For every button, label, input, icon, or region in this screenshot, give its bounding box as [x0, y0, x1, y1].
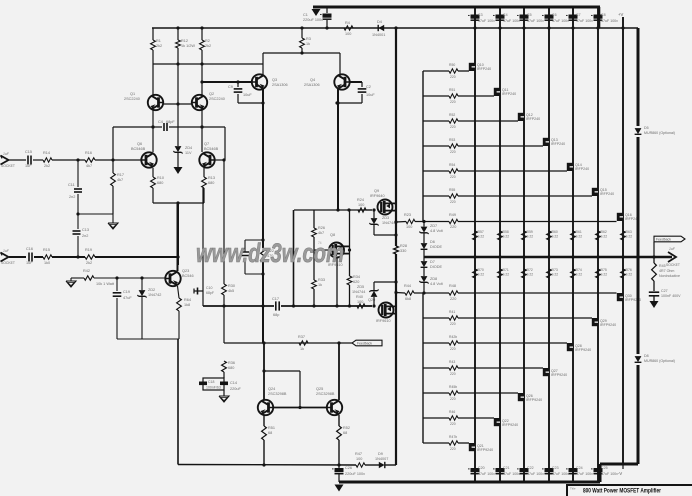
- svg-text:R19: R19: [85, 248, 92, 252]
- svg-text:1uF: 1uF: [26, 261, 33, 265]
- svg-text:R24: R24: [357, 198, 364, 202]
- wire main driver column x396 upper: [394, 28, 397, 246]
- svg-text:D6: D6: [430, 240, 435, 244]
- svg-text:C5: C5: [527, 13, 532, 17]
- wire Q23 collector x178: [177, 203, 179, 271]
- resistor R16: [85, 151, 95, 168]
- svg-text:47uF 100v: 47uF 100v: [503, 472, 520, 476]
- mosfet Q22 IRFP9240: [494, 418, 518, 427]
- mosfet Q30 IRFP9240: [617, 293, 641, 302]
- svg-text:R2: R2: [205, 39, 210, 43]
- capacitor C20 47uF 100v: [468, 466, 495, 476]
- resistor R14: [33, 151, 52, 168]
- svg-text:220: 220: [450, 75, 456, 79]
- svg-text:R48: R48: [449, 284, 456, 288]
- ground below C14: [219, 396, 229, 402]
- svg-text:DIODE: DIODE: [430, 245, 442, 249]
- wire P gate bus x423: [422, 293, 424, 443]
- svg-text:BC546: BC546: [182, 274, 194, 278]
- svg-text:Q1: Q1: [130, 92, 135, 96]
- resistor R28 330 in main column: [394, 244, 407, 254]
- capacitor C15 10uF: [9, 150, 32, 168]
- svg-text:47uF 100v: 47uF 100v: [552, 472, 569, 476]
- resistor R4 100: [344, 21, 353, 36]
- wire N gate row 1 with resistor R50 220: [423, 63, 469, 79]
- svg-text:C26: C26: [345, 466, 352, 470]
- svg-text:R23: R23: [404, 213, 411, 217]
- svg-text:R42: R42: [83, 269, 90, 273]
- svg-text:1uF: 1uF: [3, 249, 10, 253]
- svg-text:SOCKET: SOCKET: [1, 164, 15, 168]
- svg-text:1uF: 1uF: [25, 164, 32, 168]
- svg-text:R63: R63: [626, 230, 632, 234]
- wire row2 node: [52, 255, 85, 258]
- wire N gate row 5 with resistor R54 220: [423, 163, 567, 179]
- wire +V top supply rail: [313, 6, 600, 9]
- svg-text:220: 220: [450, 225, 456, 229]
- svg-text:220: 220: [450, 100, 456, 104]
- wire Q1 emitter to Q6: [151, 110, 154, 152]
- svg-text:C20: C20: [478, 466, 485, 470]
- svg-text:2k2: 2k2: [86, 261, 92, 265]
- resistor R26 4k7: [312, 210, 325, 237]
- power flag V+ arrow at rail left end: [312, 7, 321, 16]
- svg-text:R61: R61: [576, 230, 582, 234]
- svg-text:Q9: Q9: [374, 189, 379, 193]
- wire tail current column x178: [176, 203, 179, 265]
- resistor R76 0.22 source: [621, 268, 633, 278]
- capacitor C10 68pF hanging: [194, 286, 214, 295]
- svg-text:10uF: 10uF: [366, 93, 375, 97]
- svg-text:Q24: Q24: [268, 387, 275, 391]
- wire rail jog x599: [598, 7, 601, 28]
- svg-text:4R7 Ohm: 4R7 Ohm: [659, 269, 674, 273]
- capacitor C6 47uF 100v: [542, 13, 569, 23]
- svg-text:220: 220: [450, 150, 456, 154]
- diode D9 1N4007: [375, 452, 388, 468]
- svg-text:-V: -V: [618, 471, 622, 476]
- svg-text:SOCKET: SOCKET: [1, 261, 15, 265]
- svg-text:330: 330: [400, 249, 406, 253]
- resistor R30 4k5 feedback column upper: [222, 158, 235, 343]
- resistor R73 0.22 source: [547, 268, 559, 278]
- diode D7 clamp: [421, 257, 443, 276]
- resistor R51 68: [262, 415, 275, 465]
- svg-text:R4: R4: [345, 21, 350, 25]
- svg-text:R16: R16: [85, 151, 92, 155]
- svg-text:R57: R57: [478, 230, 484, 234]
- watermark www.dz3w.com: [196, 238, 344, 268]
- svg-text:1N4744: 1N4744: [382, 221, 395, 225]
- connector J2 input socket: [1, 249, 15, 265]
- svg-text:R62: R62: [601, 230, 607, 234]
- svg-text:R36: R36: [228, 361, 235, 365]
- svg-text:220: 220: [450, 175, 456, 179]
- svg-text:R64: R64: [184, 298, 191, 302]
- transistor Q24 2SC3298B: [258, 387, 287, 415]
- wire C9 to emitter column: [238, 101, 265, 104]
- svg-text:R70: R70: [478, 268, 484, 272]
- svg-text:220: 220: [450, 347, 456, 351]
- diode D4 1N4001: [372, 20, 385, 37]
- wire P gate row 6 with resistor 220: [423, 410, 494, 426]
- svg-text:2SA1306: 2SA1306: [304, 83, 320, 87]
- resistor R13 680: [202, 168, 215, 203]
- wire P gate row 3 with resistor 220: [423, 335, 567, 351]
- svg-text:220: 220: [450, 322, 456, 326]
- svg-text:R53: R53: [449, 138, 455, 142]
- svg-text:R46: R46: [449, 410, 455, 414]
- resistor R33 1k: [312, 237, 325, 306]
- svg-text:C8: C8: [601, 13, 606, 17]
- svg-text:4k7: 4k7: [318, 231, 324, 235]
- wire Q4 emitter column x338: [336, 88, 339, 210]
- transistor Q20 IRF9610 lower driver: [368, 298, 396, 323]
- svg-text:C17: C17: [272, 297, 279, 301]
- wire -V rail y482: [339, 481, 600, 484]
- capacitor C24 47uF 100v: [566, 466, 593, 476]
- svg-text:ZD5: ZD5: [357, 285, 364, 289]
- svg-text:Q23: Q23: [182, 269, 189, 273]
- svg-text:ZD2: ZD2: [148, 288, 155, 292]
- wire output column 2 x500: [499, 7, 501, 482]
- ground below R17: [108, 214, 118, 229]
- wire Q25 collector x339: [338, 343, 340, 400]
- svg-text:6k8: 6k8: [405, 297, 411, 301]
- resistor R47 100: [355, 452, 365, 467]
- svg-text:R12: R12: [181, 39, 188, 43]
- wire Q1-Q2 base link: [163, 48, 192, 106]
- wire y339 shunt join: [117, 338, 179, 340]
- svg-text:0.22: 0.22: [601, 235, 608, 239]
- svg-text:47uF 100v: 47uF 100v: [527, 472, 544, 476]
- svg-text:1k0: 1k0: [44, 261, 50, 265]
- svg-text:R71: R71: [503, 268, 509, 272]
- svg-text:10k 1 Watt: 10k 1 Watt: [96, 282, 115, 286]
- svg-text:R30: R30: [228, 284, 235, 288]
- svg-text:680: 680: [157, 181, 163, 185]
- net flag Feedback at VAS: [352, 340, 382, 346]
- resistor R62 0.22 source: [596, 230, 608, 240]
- svg-text:D9: D9: [378, 452, 383, 456]
- svg-text:R47: R47: [355, 452, 362, 456]
- svg-text:220: 220: [450, 297, 456, 301]
- wire +V bus y28 horizontal: [152, 26, 638, 29]
- wire Q2 collector: [201, 64, 203, 95]
- svg-text:1k8: 1k8: [184, 303, 190, 307]
- svg-text:2n2: 2n2: [82, 234, 88, 238]
- svg-text:220uF 100v: 220uF 100v: [303, 18, 323, 22]
- wire input node: [52, 158, 85, 161]
- wire output column 3 x524: [523, 7, 525, 482]
- wire N gate row 2 with resistor R51 220: [423, 88, 494, 104]
- svg-text:R74: R74: [576, 268, 582, 272]
- wire N gate row 3 with resistor R52 220: [423, 113, 518, 129]
- svg-text:0.22: 0.22: [601, 273, 608, 277]
- svg-text:C21: C21: [503, 466, 510, 470]
- mosfet Q29 IRFP9240: [592, 318, 616, 327]
- svg-text:C11: C11: [68, 183, 75, 187]
- svg-text:R45: R45: [659, 264, 666, 268]
- wire row2 to tail column: [95, 256, 178, 258]
- mosfet Q21 IRFP9240: [469, 443, 493, 452]
- svg-text:R73: R73: [552, 268, 558, 272]
- svg-text:0.22: 0.22: [626, 273, 633, 277]
- resistor R1 2k2: [151, 28, 163, 64]
- svg-text:R34: R34: [353, 275, 360, 279]
- capacitor C4 47uF 100v: [493, 13, 520, 23]
- svg-text:4.8 Volt: 4.8 Volt: [430, 229, 444, 233]
- wire LTP tail y203: [153, 201, 204, 204]
- wire Q1 collector: [152, 64, 154, 95]
- svg-text:68pF: 68pF: [206, 291, 214, 295]
- wire P gate row 2 with resistor 220: [423, 310, 592, 326]
- mosfet Q11 IRFP240: [494, 88, 516, 96]
- svg-text:Q25: Q25: [316, 387, 323, 391]
- svg-text:0.22: 0.22: [576, 235, 583, 239]
- resistor R52 68: [337, 415, 350, 465]
- svg-text:1k: 1k: [318, 283, 322, 287]
- svg-text:C25: C25: [601, 466, 608, 470]
- title block 800 Watt Power MOSFET Amplifier: [567, 485, 692, 496]
- mosfet Q15 IRFP240: [592, 188, 614, 196]
- svg-text:R51: R51: [268, 426, 275, 430]
- svg-text:ZD7: ZD7: [430, 224, 437, 228]
- svg-text:www.dz3w.com: www.dz3w.com: [196, 238, 344, 268]
- svg-text:220: 220: [450, 447, 456, 451]
- capacitor C17 68p series: [272, 297, 279, 317]
- svg-text:IRFP240: IRFP240: [600, 192, 614, 196]
- transistor Q8 IRF9610 bias servo: [314, 233, 350, 267]
- svg-text:R49: R49: [449, 213, 456, 217]
- resistor R72 0.22 source: [522, 268, 534, 278]
- mosfet Q10 IRFP240: [469, 63, 491, 71]
- capacitor C22 47uF 100v: [517, 466, 544, 476]
- wire Q3 base bus y82: [200, 80, 252, 83]
- transistor Q6 BC546B: [131, 142, 157, 168]
- svg-text:10uF: 10uF: [243, 93, 252, 97]
- svg-text:C15: C15: [25, 150, 32, 154]
- svg-text:R55: R55: [449, 188, 455, 192]
- svg-text:220uF: 220uF: [230, 387, 241, 391]
- svg-text:2k2: 2k2: [156, 44, 162, 48]
- svg-text:68p: 68p: [273, 313, 279, 317]
- wire N gate row 4 with resistor R53 220: [423, 138, 543, 154]
- mosfet Q13 IRFP240: [543, 138, 565, 146]
- capacitor C23 47uF 100v: [542, 466, 569, 476]
- capacitor C3 47uF 100v: [468, 13, 495, 23]
- svg-text:47uF 100v: 47uF 100v: [552, 19, 569, 23]
- wire mirror cross link: [264, 371, 302, 409]
- wire Q24 collector x264: [262, 343, 265, 400]
- capacitor C8 47uF 100v: [591, 13, 618, 23]
- svg-text:IRFP9240: IRFP9240: [526, 398, 542, 402]
- wire output rail y257: [424, 255, 672, 258]
- wire catch diode column x638: [637, 28, 640, 464]
- zener ZD7 4.8 Volt clamp: [419, 222, 443, 244]
- resistor R3 1k: [300, 28, 311, 53]
- svg-text:1k 1/2W: 1k 1/2W: [181, 44, 195, 48]
- svg-text:100nF/63: 100nF/63: [206, 386, 221, 390]
- zener ZD8 4.8 Volt clamp: [419, 276, 443, 293]
- wire N gate row 6 with resistor R55 220: [423, 188, 592, 204]
- svg-text:SOCKET: SOCKET: [666, 263, 680, 267]
- resistor R10 680: [151, 168, 164, 203]
- svg-text:1uF: 1uF: [3, 152, 10, 156]
- svg-text:R41: R41: [449, 310, 455, 314]
- svg-text:Q2: Q2: [209, 92, 214, 96]
- svg-text:R54: R54: [449, 163, 455, 167]
- svg-text:47uF 100v: 47uF 100v: [527, 19, 544, 23]
- svg-text:47uF 100v: 47uF 100v: [601, 472, 618, 476]
- resistor R63 0.22 source: [621, 230, 633, 240]
- svg-text:68: 68: [343, 431, 347, 435]
- svg-text:R52: R52: [343, 426, 350, 430]
- svg-text:C9: C9: [228, 85, 233, 89]
- svg-text:R58: R58: [503, 230, 509, 234]
- svg-text:MUR860 (Optional): MUR860 (Optional): [644, 359, 675, 363]
- resistor R45 4R7 non-inductive Zobel: [652, 257, 680, 291]
- transistor Q1 2SC2240: [124, 92, 163, 110]
- zener ZD3 1N4744: [369, 210, 395, 235]
- svg-text:68pF: 68pF: [166, 120, 175, 124]
- capacitor C7 47uF 100v: [566, 13, 593, 23]
- svg-text:C10: C10: [206, 286, 212, 290]
- resistor R57 0.22 source: [473, 230, 485, 240]
- capacitor C18 100nF/63v film: [199, 372, 224, 390]
- svg-text:4k7: 4k7: [117, 178, 123, 182]
- wire P gate row 4 with resistor 220: [423, 360, 543, 376]
- svg-text:220: 220: [450, 200, 456, 204]
- svg-text:R10: R10: [157, 176, 164, 180]
- svg-text:0.22: 0.22: [576, 273, 583, 277]
- mosfet Q14 IRFP240: [567, 163, 589, 171]
- wire Q7 base to x225: [215, 159, 225, 161]
- transistor Q7 BC546B: [199, 142, 218, 168]
- resistor R37 feedback: [298, 335, 308, 351]
- wire main driver column x396 lower: [394, 254, 397, 465]
- mosfet Q26 IRFP9240: [518, 393, 542, 402]
- svg-text:220uF 100v: 220uF 100v: [345, 472, 365, 476]
- svg-text:47uF 100v: 47uF 100v: [478, 19, 495, 23]
- wire Q8 drain column x337: [336, 258, 338, 307]
- svg-text:C1: C1: [303, 13, 308, 17]
- resistor R59 0.22 source: [522, 230, 534, 240]
- svg-text:47uF: 47uF: [123, 296, 132, 300]
- wire to Q6 base: [95, 158, 141, 161]
- svg-text:1k: 1k: [300, 347, 304, 351]
- wire y214 link: [77, 213, 113, 215]
- svg-text:620: 620: [353, 280, 359, 284]
- resistor R48 220 P-row1 gate: [449, 284, 617, 301]
- wire bottom bias y465: [178, 463, 396, 466]
- power arrow below ZD4: [174, 153, 183, 174]
- svg-text:C13: C13: [82, 228, 89, 232]
- svg-text:R28: R28: [400, 244, 407, 248]
- mosfet Q28 IRFP9240: [567, 343, 591, 352]
- svg-text:0.22: 0.22: [552, 235, 559, 239]
- capacitor C19 47uF: [113, 278, 133, 339]
- svg-text:C18: C18: [208, 380, 214, 384]
- svg-text:2SA1306: 2SA1306: [272, 83, 288, 87]
- svg-text:D8: D8: [644, 354, 649, 358]
- svg-text:R50: R50: [449, 63, 455, 67]
- svg-text:680: 680: [208, 181, 214, 185]
- transistor Q2 2SC2240: [192, 92, 225, 110]
- svg-text:R76: R76: [626, 268, 632, 272]
- wire C2 to emitter column: [335, 101, 362, 104]
- svg-text:0.22: 0.22: [626, 235, 633, 239]
- capacitor C26 220uF 100v: [332, 465, 365, 482]
- resistor R19: [85, 248, 95, 265]
- transistor Q9 IRF9640 upper driver: [370, 189, 396, 215]
- wire output column 1 x475: [474, 7, 476, 482]
- resistor R44 6k8 P-feed: [396, 284, 449, 301]
- svg-text:47uF 100v: 47uF 100v: [503, 19, 520, 23]
- svg-text:ZD4: ZD4: [185, 146, 192, 150]
- svg-text:IRFP9240: IRFP9240: [575, 348, 591, 352]
- svg-text:R37: R37: [298, 335, 305, 339]
- resistor R24 100 Q9 gate: [357, 198, 372, 212]
- capacitor C5 47uF 100v: [517, 13, 544, 23]
- svg-text:IRFP9240: IRFP9240: [551, 373, 567, 377]
- svg-text:680: 680: [228, 366, 234, 370]
- resistor R60 0.22 source: [547, 230, 559, 240]
- capacitor C9 10uF: [228, 82, 252, 103]
- wire VAS column x263: [262, 88, 264, 240]
- svg-text:R3: R3: [306, 37, 311, 41]
- wire Q7-side column x203 down to bias rail: [202, 188, 204, 306]
- svg-text:0.22: 0.22: [527, 235, 534, 239]
- svg-text:C4: C4: [503, 13, 508, 17]
- transistor Q4 2SA1306: [304, 74, 350, 89]
- svg-text:IRF9610: IRF9610: [376, 319, 391, 323]
- wire cascode collector bus y53: [263, 51, 340, 76]
- svg-text:C4: C4: [158, 120, 163, 124]
- wire Q4 base bus: [349, 81, 362, 83]
- svg-text:0.22: 0.22: [527, 273, 534, 277]
- resistor R17 4k7: [111, 127, 124, 214]
- wire output column 6 x598: [597, 7, 599, 482]
- wire output column 4 x549: [548, 7, 550, 482]
- svg-text:4k5: 4k5: [228, 289, 234, 293]
- svg-text:11V: 11V: [185, 151, 192, 155]
- svg-text:R17: R17: [117, 173, 124, 177]
- resistor R71 0.22 source: [498, 268, 510, 278]
- diode D6 clamp: [421, 240, 443, 257]
- wire bias left column x293: [293, 210, 295, 306]
- svg-text:IRFP240: IRFP240: [502, 92, 516, 96]
- net flag Feedback at output: [654, 236, 685, 257]
- power arrow Zobel ground: [650, 301, 659, 308]
- svg-text:R33: R33: [318, 278, 325, 282]
- resistor R58 0.22 source: [498, 230, 510, 240]
- svg-text:1N4001: 1N4001: [372, 33, 385, 37]
- svg-text:ZD8: ZD8: [430, 277, 437, 281]
- svg-text:1N4007: 1N4007: [375, 457, 388, 461]
- svg-text:220: 220: [450, 397, 456, 401]
- svg-text:C7: C7: [576, 13, 581, 17]
- wire feedback node y343: [224, 341, 352, 344]
- svg-text:47uF 100v: 47uF 100v: [576, 472, 593, 476]
- svg-text:100: 100: [406, 225, 412, 229]
- resistor R36 680: [222, 361, 235, 372]
- svg-text:R15: R15: [43, 248, 50, 252]
- svg-text:800 Watt Power MOSFET Amplifie: 800 Watt Power MOSFET Amplifier: [583, 488, 661, 495]
- capacitor C21 47uF 100v: [493, 466, 520, 476]
- capacitor C2 10uF: [358, 82, 376, 103]
- wire collector load bus y64: [153, 62, 263, 65]
